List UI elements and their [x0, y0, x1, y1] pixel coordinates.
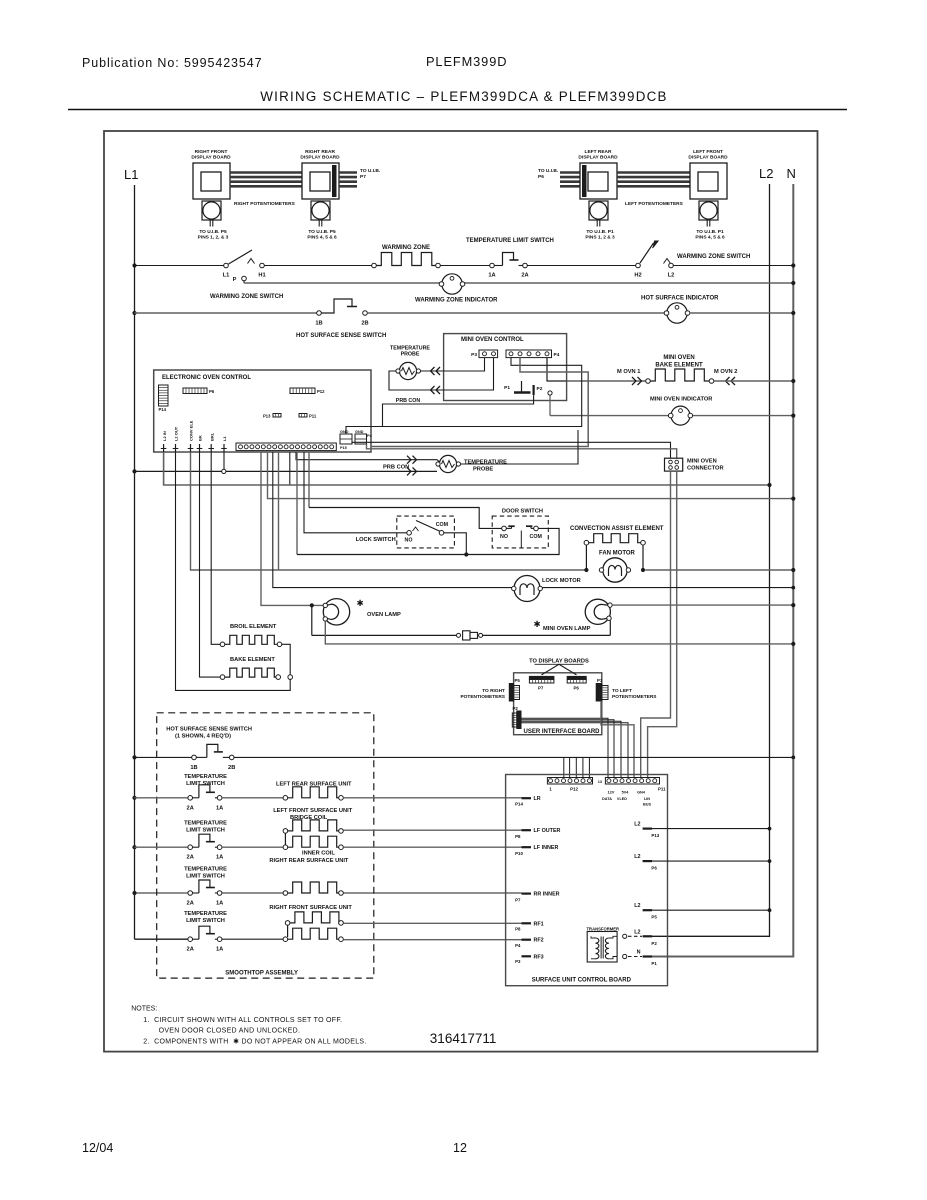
right rear surface unit left terminal — [283, 891, 288, 896]
wire conv right drop — [642, 545, 644, 570]
svg-text:RIGHT REAR SURFACE UNIT: RIGHT REAR SURFACE UNIT — [269, 858, 349, 864]
wire mini oven connector down pair — [641, 471, 671, 778]
left potentiometer 2 — [699, 201, 718, 220]
door switch terminal COM — [534, 526, 539, 531]
right potentiometer 2 — [311, 201, 330, 220]
svg-text:P3: P3 — [515, 959, 521, 964]
wire probe top return to P3 pin2 — [389, 358, 494, 390]
wire EOC pin to door switch NO — [308, 452, 310, 508]
wire UIB P1 to P11 pin5 — [601, 701, 634, 778]
wire bake bus right to N — [714, 380, 794, 382]
svg-text:RR INNER: RR INNER — [534, 892, 560, 898]
inner coil element — [288, 836, 342, 847]
temperature limit switch top terminal 2A — [523, 263, 528, 268]
svg-text:12V: 12V — [608, 791, 615, 795]
svg-text:N: N — [637, 950, 641, 956]
wire unit2 left — [135, 846, 189, 848]
svg-text:RIGHT FRONT SURFACE UNIT: RIGHT FRONT SURFACE UNIT — [269, 905, 352, 911]
svg-text:DISPLAY BOARD: DISPLAY BOARD — [688, 155, 728, 161]
warming zone switch right arm — [653, 241, 659, 248]
junction dot conv right — [641, 568, 645, 572]
wire EOC pin stub fan bus — [278, 452, 280, 570]
svg-text:12/04: 12/04 — [82, 1141, 113, 1155]
svg-text:✱: ✱ — [356, 598, 363, 608]
EOC bottom terminal row — [236, 443, 336, 451]
board pin RF1 — [522, 922, 532, 924]
svg-text:TO U.I.B. P1: TO U.I.B. P1 — [586, 229, 614, 235]
wire MOC P4 pin5 to bake bus — [547, 358, 567, 381]
svg-text:LIMIT SWITCH: LIMIT SWITCH — [186, 828, 225, 834]
EOC connector P14 — [159, 385, 169, 406]
svg-text:MINI OVEN LAMP: MINI OVEN LAMP — [543, 626, 591, 632]
warming zone element — [376, 253, 437, 266]
svg-text:TO U.I.B.: TO U.I.B. — [538, 168, 558, 174]
junction dot L1 probe line — [132, 469, 136, 473]
wire unit1 left — [135, 797, 189, 799]
board pin LR — [522, 797, 532, 799]
wire lock motor to N — [543, 587, 794, 589]
wire EOC pin to junction bus — [296, 452, 298, 555]
svg-text:FAN MOTOR: FAN MOTOR — [599, 551, 636, 557]
UIB connector P7 — [529, 676, 554, 679]
bridge coil upper left terminal — [283, 829, 288, 834]
ribbon cable from UIB P6 — [560, 171, 580, 174]
svg-text:SURFACE UNIT CONTROL BOARD: SURFACE UNIT CONTROL BOARD — [532, 978, 632, 984]
lock motor — [514, 576, 540, 602]
warming zone switch left terminal P — [242, 276, 247, 281]
svg-text:316417711: 316417711 — [430, 1031, 497, 1046]
svg-text:LEFT REAR: LEFT REAR — [585, 149, 612, 155]
svg-text:LEFT POTENTIOMETERS: LEFT POTENTIOMETERS — [625, 201, 684, 207]
EOC connector P6 — [183, 388, 207, 394]
svg-text:NO: NO — [500, 534, 508, 540]
warming zone element left terminal — [372, 263, 377, 268]
mini oven connector — [665, 458, 683, 471]
right front lower element — [288, 928, 342, 939]
junction dot P13 at L2 — [768, 827, 772, 831]
wire inner to board LF INNER — [343, 846, 521, 848]
svg-text:PINS 1, 2 & 3: PINS 1, 2 & 3 — [585, 235, 615, 241]
inline lamp connector — [457, 633, 461, 637]
lock switch terminal COM — [439, 531, 444, 536]
wire mini oven indicator bus — [550, 415, 793, 417]
wire upper to board RF1 — [343, 922, 521, 924]
right front link — [287, 925, 289, 937]
wire EOC pin to lock switch NO — [304, 452, 407, 533]
wire MOC circle down to indicator bus — [549, 395, 551, 416]
svg-text:P5: P5 — [515, 678, 521, 683]
svg-text:2A: 2A — [187, 947, 194, 953]
EOC connector P11 — [299, 414, 307, 418]
svg-text:BUS: BUS — [643, 803, 651, 807]
svg-text:1A: 1A — [216, 855, 223, 861]
junction dot lock motor at N — [791, 586, 795, 590]
oven lamp — [323, 599, 349, 625]
wire lamp line to mini oven lamp — [312, 634, 457, 636]
svg-text:TEMPERATURE: TEMPERATURE — [184, 867, 227, 873]
svg-text:TEMPERATURE LIMIT SWITCH: TEMPERATURE LIMIT SWITCH — [466, 238, 554, 244]
svg-text:P15: P15 — [340, 446, 347, 450]
wire P6 to L2 rail — [652, 860, 769, 862]
mini oven bake element left terminal — [646, 379, 651, 384]
wire TLS2 to element2 — [222, 846, 283, 848]
svg-text:P8: P8 — [515, 834, 521, 839]
left front display board — [690, 163, 727, 199]
svg-text:TEMPERATURE: TEMPERATURE — [184, 821, 227, 827]
electronic oven control box — [154, 370, 371, 452]
ribbon cable to UIB P7 — [339, 171, 357, 174]
mini oven lamp — [585, 599, 610, 624]
junction dot indicator bus at N — [791, 414, 795, 418]
temperature probe top body — [399, 362, 416, 379]
svg-text:TEMPERATURE: TEMPERATURE — [464, 460, 507, 466]
svg-text:TO U.I.B. P5: TO U.I.B. P5 — [308, 229, 336, 235]
wire 1B2B to indicator — [367, 312, 665, 314]
svg-text:P13: P13 — [651, 833, 659, 838]
svg-text:TRANSFORMER: TRANSFORMER — [587, 927, 620, 932]
svg-text:P4: P4 — [515, 943, 521, 948]
svg-text:LF OUTER: LF OUTER — [534, 828, 561, 834]
left potentiometer 1 — [589, 201, 608, 220]
connector chevrons M OVN 2 — [731, 377, 735, 385]
svg-text:M OVN 2: M OVN 2 — [714, 369, 737, 375]
wire EOC pin to oven lamp — [261, 452, 323, 605]
wire MOC P4 pin2 loop to EOC edge — [371, 358, 588, 447]
svg-text:1B: 1B — [315, 321, 322, 327]
EOC bottom edge pins with labels — [163, 444, 165, 452]
junction dot bake bus at N — [791, 379, 795, 383]
schematic border frame — [104, 131, 818, 1052]
svg-text:L2: L2 — [634, 822, 640, 828]
wire mini oven lamp feed turnup — [609, 620, 611, 635]
svg-text:RIGHT REAR: RIGHT REAR — [305, 149, 335, 155]
connector chevrons prb con lower line1 — [407, 456, 411, 464]
svg-text:2B: 2B — [361, 321, 368, 327]
wire N rail — [652, 184, 793, 957]
inner coil right terminal — [339, 845, 344, 850]
right potentiometer 1 — [202, 201, 221, 220]
wire probe top to P3 pin1 — [421, 358, 485, 371]
user interface board box — [514, 673, 602, 735]
svg-text:TO U.I.B. P5: TO U.I.B. P5 — [199, 229, 227, 235]
board pin N P1 — [623, 954, 627, 958]
svg-text:P10: P10 — [515, 851, 523, 856]
EOC L1 pin connector circle — [222, 469, 226, 473]
junction dot lamp return at N — [791, 642, 795, 646]
warming zone switch left terminal H1 — [260, 263, 265, 268]
svg-text:LOCK SWITCH: LOCK SWITCH — [356, 537, 396, 543]
svg-text:P2: P2 — [537, 386, 543, 392]
wire sense bus left — [135, 756, 192, 758]
svg-text:P14: P14 — [159, 407, 167, 412]
svg-text:L1: L1 — [222, 436, 227, 441]
svg-text:BAKE ELEMENT: BAKE ELEMENT — [655, 363, 703, 369]
svg-text:P2: P2 — [513, 706, 519, 711]
svg-text:PINS 4, 5 & 6: PINS 4, 5 & 6 — [695, 235, 725, 241]
svg-text:L2: L2 — [634, 903, 640, 909]
svg-text:TO U.I.B. P1: TO U.I.B. P1 — [696, 229, 724, 235]
wire oven lamp return — [325, 621, 793, 644]
wire conv left drop — [585, 545, 587, 570]
junction dot fan bus at N — [791, 568, 795, 572]
wire bake bus left — [567, 380, 646, 382]
connector chevrons probe top line1 — [436, 367, 440, 375]
svg-text:N: N — [787, 166, 796, 181]
svg-text:1A: 1A — [216, 947, 223, 953]
svg-text:PINS 1, 2, & 3: PINS 1, 2, & 3 — [198, 235, 229, 241]
temperature limit switch top terminal 1A — [490, 263, 495, 268]
EOC connector P12 — [290, 388, 315, 394]
wire sense bus right — [234, 756, 793, 758]
svg-text:LIMIT SWITCH: LIMIT SWITCH — [186, 874, 225, 880]
hot surface sense switch terminal 1B — [317, 311, 322, 316]
svg-text:TEMPERATURE: TEMPERATURE — [184, 911, 227, 917]
svg-text:L2: L2 — [759, 166, 773, 181]
bake element right terminal — [276, 675, 281, 680]
wire L1 to unit4 — [135, 938, 189, 940]
junction dot bus A at N — [791, 263, 795, 267]
junction dot L1 unit2 — [132, 845, 136, 849]
svg-text:LEFT FRONT SURFACE UNIT: LEFT FRONT SURFACE UNIT — [273, 808, 353, 814]
bridge coil upper right terminal — [339, 829, 344, 834]
svg-text:P6: P6 — [209, 389, 215, 394]
title underline rule — [68, 109, 847, 111]
svg-text:GN4: GN4 — [637, 791, 646, 795]
svg-text:LR: LR — [534, 796, 541, 802]
svg-text:LEFT FRONT: LEFT FRONT — [693, 149, 723, 155]
svg-text:RF3: RF3 — [534, 954, 544, 960]
svg-text:RF2: RF2 — [534, 938, 544, 944]
board pin LF OUTER — [522, 829, 532, 831]
EOC connector GND P4 — [355, 434, 367, 444]
svg-text:TO LEFT: TO LEFT — [612, 688, 632, 694]
broil element — [225, 635, 279, 644]
junction dot L1 unit1 — [132, 796, 136, 800]
svg-text:P4: P4 — [554, 352, 560, 358]
svg-text:✱: ✱ — [533, 619, 540, 629]
junction dot y498 at N — [791, 497, 795, 501]
wire bridge link — [284, 833, 286, 845]
svg-text:P11: P11 — [658, 787, 666, 792]
wire L2IN to L2 rail — [164, 452, 770, 485]
svg-text:P8: P8 — [515, 927, 521, 932]
ribbon cable right boards — [230, 171, 302, 174]
fan motor — [603, 558, 627, 582]
board pin RF2 — [522, 939, 532, 941]
svg-text:LF INNER: LF INNER — [534, 845, 559, 851]
right front upper left terminal — [285, 921, 290, 926]
bake element left terminal — [220, 675, 225, 680]
svg-text:WARMING ZONE SWITCH: WARMING ZONE SWITCH — [210, 294, 283, 300]
svg-text:L2 IN: L2 IN — [162, 431, 167, 441]
svg-text:P12: P12 — [317, 389, 325, 394]
svg-text:LIN: LIN — [644, 797, 650, 801]
svg-text:LIMIT SWITCH: LIMIT SWITCH — [186, 918, 225, 924]
wires sense bus to P12 pins — [563, 757, 565, 778]
wire bus A left segment — [135, 265, 227, 267]
MOC terminal circle — [548, 391, 552, 395]
svg-text:VLED: VLED — [617, 797, 627, 801]
svg-text:Publication No: 5995423547: Publication No: 5995423547 — [82, 56, 262, 70]
wires to display boards — [542, 664, 577, 675]
wire EOC to mini oven connector pin2 — [367, 444, 677, 458]
svg-text:POTENTIOMETERS: POTENTIOMETERS — [612, 694, 657, 700]
svg-text:DISPLAY BOARD: DISPLAY BOARD — [300, 155, 340, 161]
warming zone switch left arm — [229, 250, 253, 264]
junction dot oven lamp feed — [310, 603, 314, 607]
svg-text:P1: P1 — [504, 385, 510, 391]
junction dot bus C at N — [791, 311, 795, 315]
door switch box — [492, 516, 548, 548]
warming zone indicator — [442, 274, 462, 294]
svg-text:P6: P6 — [651, 866, 657, 871]
wire TLS3 to element3 — [222, 892, 283, 894]
junction dot conv left — [584, 568, 588, 572]
board pin L2 P5 — [643, 909, 653, 911]
svg-text:HOT SURFACE INDICATOR: HOT SURFACE INDICATOR — [641, 296, 719, 302]
wire bus C left — [135, 312, 320, 314]
svg-text:TO U.I.B.: TO U.I.B. — [360, 168, 380, 174]
svg-text:P7: P7 — [538, 686, 544, 691]
wire unit3 to board RR INNER — [343, 892, 521, 894]
svg-text:13: 13 — [598, 780, 602, 784]
convection element right terminal — [641, 540, 646, 545]
door switch contacts — [506, 527, 511, 529]
svg-text:BK: BK — [198, 435, 203, 441]
wire P5 to L2 rail — [652, 909, 769, 911]
svg-text:WARMING ZONE INDICATOR: WARMING ZONE INDICATOR — [415, 298, 498, 304]
svg-text:P14: P14 — [515, 802, 523, 807]
svg-text:P13: P13 — [263, 414, 271, 419]
svg-text:POTENTIOMETERS: POTENTIOMETERS — [460, 694, 505, 700]
hot surface sense switch terminal 1B — [192, 755, 197, 760]
wire L2 rail — [652, 184, 770, 936]
svg-text:RIGHT FRONT: RIGHT FRONT — [195, 149, 228, 155]
svg-text:MINI OVEN CONTROL: MINI OVEN CONTROL — [461, 337, 524, 343]
svg-text:MINI OVEN: MINI OVEN — [687, 459, 717, 465]
wire oven lamp junction down — [311, 605, 313, 635]
svg-text:BROIL ELEMENT: BROIL ELEMENT — [230, 624, 277, 630]
svg-text:1B: 1B — [190, 765, 197, 771]
UIB connector P6 — [567, 676, 586, 679]
svg-text:PLEFM399D: PLEFM399D — [426, 54, 507, 69]
svg-text:H1: H1 — [258, 273, 265, 279]
svg-text:P2: P2 — [651, 941, 657, 946]
svg-text:WARMING ZONE SWITCH: WARMING ZONE SWITCH — [677, 254, 750, 260]
svg-text:COM: COM — [530, 534, 543, 540]
mini oven bake element — [650, 369, 709, 381]
right front lower left terminal — [283, 937, 288, 942]
svg-text:LIMIT SWITCH: LIMIT SWITCH — [186, 781, 225, 787]
svg-text:2A: 2A — [521, 273, 528, 279]
wire probe lower right return — [461, 430, 578, 464]
board connector P12 — [547, 778, 592, 785]
convection element left terminal — [584, 540, 589, 545]
svg-text:LOCK MOTOR: LOCK MOTOR — [542, 578, 581, 584]
wire element to 1A — [440, 265, 489, 267]
svg-text:GND: GND — [340, 430, 349, 434]
junction dot L1 bus A — [132, 263, 136, 267]
hot surface sense switch terminal 2B — [229, 755, 234, 760]
wire TLS4 to element4 — [222, 938, 283, 940]
junction dot sense bus at N — [791, 756, 795, 760]
right front lower right terminal — [339, 937, 344, 942]
svg-text:MINI OVEN INDICATOR: MINI OVEN INDICATOR — [650, 397, 712, 403]
svg-text:2A: 2A — [187, 855, 194, 861]
hot surface sense switch terminal 2B — [363, 311, 368, 316]
MOC connector P4 — [506, 350, 552, 358]
junction dot lock-door — [464, 552, 468, 556]
svg-text:L2: L2 — [634, 854, 640, 860]
board pin L2 P2 — [623, 934, 627, 938]
svg-text:L2: L2 — [668, 273, 675, 279]
bake broil common terminal — [288, 675, 293, 680]
svg-text:NO: NO — [405, 538, 413, 544]
svg-text:P11: P11 — [309, 414, 317, 419]
left rear surface unit element — [288, 787, 342, 798]
hot surface sense switch — [196, 756, 207, 758]
wire BK pin down to bake — [200, 452, 221, 677]
wire L2 terminal to N rail — [673, 265, 793, 267]
svg-text:(1 SHOWN, 4 REQ'D): (1 SHOWN, 4 REQ'D) — [175, 734, 231, 740]
junction dot L1 sense bus — [132, 755, 136, 759]
board pin RR INNER — [522, 892, 532, 894]
broil element left terminal — [220, 642, 225, 647]
wire EOC pin to lock motor — [273, 452, 512, 588]
junction dot P6 at L2 — [768, 859, 772, 863]
lock switch arm — [416, 521, 440, 532]
svg-text:1. CIRCUIT SHOWN WITH ALL CON: 1. CIRCUIT SHOWN WITH ALL CONTROLS SET T… — [143, 1017, 342, 1024]
wire P13 to L2 rail — [652, 828, 769, 830]
warming zone switch left terminal L1 — [224, 263, 229, 268]
svg-text:DISPLAY BOARD: DISPLAY BOARD — [578, 155, 618, 161]
junction dot P5 at L2 — [768, 908, 772, 912]
svg-text:2B: 2B — [228, 765, 235, 771]
svg-text:P1: P1 — [597, 678, 603, 683]
mini oven bake element right terminal — [709, 379, 714, 384]
svg-text:RF1: RF1 — [534, 921, 544, 927]
wire L1 rail — [134, 185, 136, 939]
svg-text:CONV ELE: CONV ELE — [189, 420, 194, 441]
svg-text:TO RIGHT: TO RIGHT — [482, 688, 505, 694]
wire H1 to warming element — [264, 265, 371, 267]
left rear display board — [580, 163, 617, 199]
svg-text:INNER COIL: INNER COIL — [302, 851, 335, 857]
board pin L2 P13 — [643, 827, 653, 829]
svg-text:1A: 1A — [216, 901, 223, 907]
svg-text:P6: P6 — [574, 686, 580, 691]
smoothtop assembly box — [157, 713, 374, 978]
svg-text:PINS 4, 5 & 6: PINS 4, 5 & 6 — [307, 235, 337, 241]
svg-text:OVEN DOOR CLOSED AND UNLOCKED.: OVEN DOOR CLOSED AND UNLOCKED. — [159, 1028, 301, 1035]
warming zone switch right terminal H2 — [636, 263, 641, 268]
svg-text:L2 OUT: L2 OUT — [174, 426, 179, 441]
svg-text:H2: H2 — [634, 273, 641, 279]
svg-text:L2: L2 — [634, 929, 640, 935]
wire EOC pin to probe lower upper line — [296, 452, 440, 462]
inner coil left terminal — [283, 845, 288, 850]
svg-text:P6: P6 — [538, 174, 544, 180]
wire BRL pin down to broil — [211, 452, 220, 644]
wire conv ele pin down — [191, 452, 587, 570]
wire P2 bar stub — [383, 395, 534, 426]
wire mini oven lamp to N — [612, 604, 793, 606]
left rear surface unit left terminal — [283, 796, 288, 801]
wire bus B — [244, 282, 793, 284]
bridge coil upper element — [288, 820, 342, 831]
mini oven indicator — [671, 406, 690, 425]
svg-text:BAKE ELEMENT: BAKE ELEMENT — [230, 657, 275, 663]
